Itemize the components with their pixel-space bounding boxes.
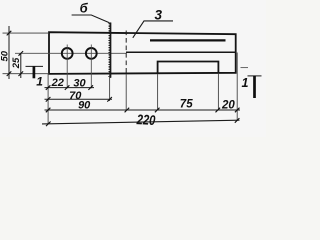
tick <box>7 31 12 36</box>
svg-text:1: 1 <box>36 74 43 88</box>
tick <box>46 97 51 102</box>
serrated break line <box>110 23 112 78</box>
svg-text:50: 50 <box>0 50 11 61</box>
tick <box>46 122 51 127</box>
dashed boundary line <box>125 31 127 75</box>
tick <box>46 85 51 90</box>
slot rectangle <box>158 62 219 74</box>
extension left edge down <box>47 74 49 124</box>
step edge line right half <box>126 51 236 53</box>
dimension 50 line <box>8 26 10 79</box>
svg-text:20: 20 <box>221 100 235 112</box>
svg-text:90: 90 <box>78 100 91 112</box>
stray edge mark right of plate <box>241 67 249 69</box>
svg-text:3: 3 <box>154 7 162 22</box>
hole 2 center line <box>90 45 92 89</box>
plate outline <box>49 32 236 74</box>
tick <box>19 51 24 56</box>
dimension row C line <box>45 109 241 111</box>
groove thick line <box>150 39 226 41</box>
svg-text:25: 25 <box>11 57 22 69</box>
svg-text:б: б <box>80 1 89 16</box>
section mark right <box>248 75 262 77</box>
paper background <box>0 0 266 137</box>
hole 2 <box>86 48 97 59</box>
tick <box>216 108 221 113</box>
svg-text:22: 22 <box>51 77 64 89</box>
tick <box>155 108 160 113</box>
tick <box>125 108 130 113</box>
tick <box>107 97 112 102</box>
hole center line horizontal <box>15 52 126 54</box>
svg-text:220: 220 <box>135 112 155 128</box>
extension slot left down <box>157 74 159 110</box>
tick <box>65 85 70 90</box>
extension line bottom left <box>3 73 50 75</box>
dimension 25 line <box>20 53 22 78</box>
dimension row D line <box>42 120 240 124</box>
svg-text:75: 75 <box>180 99 193 111</box>
tick <box>46 108 51 113</box>
tick <box>235 118 240 123</box>
extension right edge down <box>236 53 238 121</box>
hole 1 center line <box>66 45 68 89</box>
tick <box>19 71 24 76</box>
section mark left <box>26 65 44 67</box>
hole 1 <box>62 48 73 59</box>
tick <box>88 85 93 90</box>
extension line top left <box>3 32 50 34</box>
extension zigzag down <box>109 74 111 101</box>
dimension row A line <box>45 87 95 89</box>
tick <box>235 108 240 113</box>
svg-text:1: 1 <box>242 76 249 90</box>
tick <box>7 71 12 76</box>
extension slot right down <box>217 74 219 110</box>
dimension row B line <box>45 98 113 100</box>
svg-text:30: 30 <box>73 78 86 90</box>
